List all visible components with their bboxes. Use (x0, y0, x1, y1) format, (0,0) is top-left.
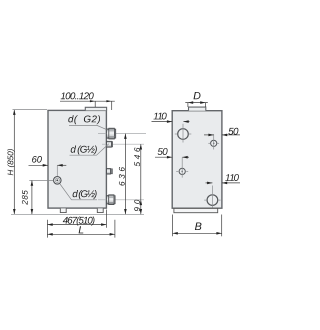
dim 467(510) text (63, 217, 95, 226)
arrowheads D (188, 101, 206, 104)
dim 546 line (140, 144, 142, 214)
dim 90 tick arrow (140, 200, 143, 205)
label d( G2) (68, 115, 100, 124)
arrowheads H (13, 110, 16, 215)
arrowheads 50 right (208, 134, 227, 137)
dim 100..120 text (61, 92, 94, 99)
hole circle C3 (176, 157, 188, 177)
label d (G1/2) lower (73, 190, 97, 199)
arrowheads 50 left (167, 156, 188, 159)
dim 636 line (124, 134, 126, 215)
side view body (right) (172, 111, 222, 209)
arrowheads 636 (124, 134, 127, 215)
hole circle C2 (208, 134, 219, 149)
foot left (left view) (60, 208, 66, 212)
dim 636 text (119, 167, 125, 186)
arrowheads 110 right (207, 182, 227, 185)
dim B line (173, 215, 222, 237)
hole circle C1 (175, 124, 192, 143)
dim H (850) text (7, 149, 15, 175)
dim 467 line (47, 210, 106, 238)
dim B text (195, 223, 202, 231)
arrowheads 100..120 (90, 100, 112, 102)
drain circle (54, 177, 62, 185)
dim L line (47, 220, 115, 238)
dim 90 text (134, 200, 140, 212)
dim D line (185, 103, 208, 107)
label shelf and leader L1 (69, 125, 106, 129)
fitting F4 nozzle d(G1/2) bottom (107, 195, 116, 205)
side view base plate (174, 208, 218, 212)
dim 110 top line (152, 121, 190, 123)
dim D text (194, 92, 201, 99)
side view neck (189, 107, 206, 111)
foot right (left view) (97, 208, 103, 212)
dim 60 line (29, 164, 67, 166)
fitting F1 nozzle d(G2) (107, 128, 116, 139)
arrowheads 60 (43, 164, 63, 167)
hole circle C4 (204, 186, 220, 208)
dim 50 left line (155, 156, 189, 158)
drain vertical line (56, 165, 58, 176)
leader L3 to drain (60, 184, 97, 200)
tank body (left view) (48, 110, 106, 208)
dim 285 line (29, 180, 53, 214)
dim 50 left text (158, 148, 168, 155)
dim 50 right text (228, 128, 238, 135)
label d (G1/2) upper (71, 146, 97, 155)
dim 100..120 line (60, 101, 115, 110)
arrowheads L (47, 233, 115, 236)
dim 110 right line (206, 182, 241, 184)
bottom baseline ext (11, 213, 144, 215)
arrowheads 467 (47, 223, 106, 226)
dim 60 text (32, 156, 42, 163)
dim 285 text (22, 190, 28, 205)
fitting F3 nozzle (107, 169, 113, 175)
dim 546 text (134, 148, 140, 167)
dim H line (13, 110, 48, 215)
dim L text (79, 226, 84, 233)
arrowheads 546 (140, 144, 143, 214)
arrowheads 285 (31, 180, 34, 214)
fitting axis line F4 (98, 199, 144, 201)
fitting F2 nozzle d(G1/2) (107, 141, 113, 147)
arrowheads B (173, 232, 222, 235)
label shelf and leader L2 (70, 144, 109, 155)
dim 50 right line (204, 134, 240, 136)
dim 110 top text (154, 113, 167, 120)
fitting axis line F1 (98, 133, 146, 135)
fitting axis line F2 (102, 143, 144, 145)
dim 110 right text (225, 174, 239, 181)
neck (left view top) (85, 107, 106, 110)
arrowheads 110 top (167, 120, 189, 123)
